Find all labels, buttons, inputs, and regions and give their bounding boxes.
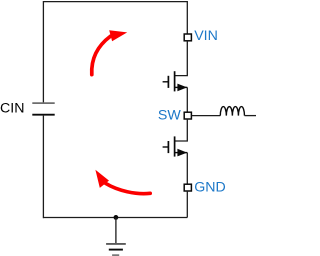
- low-side MOSFET Q2: [163, 136, 188, 156]
- wire bottom horizontal: [43, 217, 187, 219]
- wire left vertical lower (CIN to bottom rail): [42, 116, 44, 219]
- svg-text:GND: GND: [194, 179, 226, 195]
- wire inductor to output: [245, 115, 257, 117]
- svg-text:CIN: CIN: [0, 100, 24, 116]
- svg-text:VIN: VIN: [194, 28, 218, 44]
- ground: [106, 244, 126, 255]
- terminal pin GND: [184, 184, 191, 191]
- terminal pin VIN: [184, 34, 191, 41]
- wire right vertical (top rail to VIN pin): [186, 1, 188, 34]
- inductor L: [220, 107, 244, 116]
- wire VIN pin to Q1 drain: [175, 41, 188, 76]
- wire Q2 source to GND pin: [186, 153, 188, 185]
- capacitor CIN: [32, 103, 54, 115]
- wire SW pin to inductor: [192, 115, 221, 117]
- current loop arrow (bottom, counter-clockwise): [95, 170, 150, 194]
- wire Q1 source to SW pin: [186, 87, 188, 112]
- wire GND pin to bottom rail: [186, 191, 188, 218]
- svg-text:SW: SW: [158, 108, 181, 124]
- wire top horizontal: [43, 1, 187, 3]
- wire SW pin to Q2 drain: [175, 119, 188, 141]
- current loop arrow (top, clockwise): [92, 30, 127, 74]
- wire left vertical upper (top rail to CIN): [42, 1, 44, 103]
- terminal pin SW: [184, 112, 191, 119]
- high-side MOSFET Q1: [163, 71, 188, 91]
- junction node (ground tap): [114, 215, 119, 220]
- wire ground stem: [115, 217, 117, 243]
